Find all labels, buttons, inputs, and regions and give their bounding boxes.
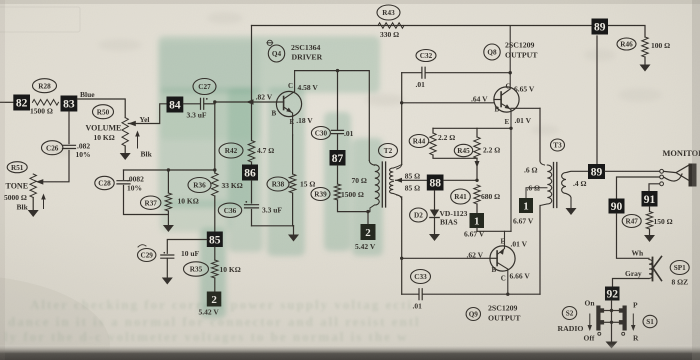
wire 89 down [596, 36, 598, 164]
ground C29 [166, 258, 168, 277]
wire Blue from 83 to volume pot [77, 99, 125, 118]
switch S1 [643, 315, 657, 327]
capacitor C27 [193, 79, 216, 95]
marker box 82 [13, 95, 30, 111]
test point box 1 D2 [470, 213, 485, 228]
potentiometer R51 TONE [7, 162, 27, 173]
resistor R28 [33, 79, 57, 93]
monitor jack [605, 170, 660, 172]
test point box 2 bottom [207, 292, 222, 307]
wire Yel wiper to 84 [128, 104, 166, 124]
resistor R36 [188, 178, 211, 193]
marker box 90 [609, 199, 625, 214]
capacitor C29 [167, 240, 207, 254]
resistor R43 [377, 5, 400, 20]
resistor R41 [451, 189, 471, 204]
ground R37 [163, 225, 174, 232]
transistor Q8 2SC1209 OUTPUT [484, 44, 500, 60]
resistor R35 [184, 262, 209, 276]
T2 secondary [390, 168, 394, 180]
ground switch [606, 342, 618, 349]
wiper arrow R50 [128, 121, 136, 126]
adjust arrow tone [43, 197, 45, 209]
wire left rail B [401, 197, 403, 294]
wire Q8 base [402, 102, 494, 104]
marker box 87 [330, 150, 346, 166]
capacitor C33 [411, 270, 431, 284]
switch throw arrows [589, 314, 591, 327]
resistor R39 [311, 188, 330, 201]
wire input to 82 [0, 101, 13, 103]
marker box 84 [167, 97, 184, 113]
resistor R46 [617, 38, 636, 50]
capacitor C36 [218, 203, 241, 217]
ground rail [293, 226, 295, 235]
wire bottom rail 86-R38 [252, 225, 294, 227]
marker box 89 top [592, 19, 609, 35]
wire Q4 collector to T2 [295, 71, 370, 161]
marker box 86 [242, 165, 258, 181]
test point box 1 T3 [519, 198, 533, 213]
transformer T2 [379, 144, 398, 158]
resistor R44 [409, 135, 429, 148]
wire 88 to R41 [444, 179, 478, 181]
resistor R37 [141, 196, 161, 209]
resistor R38 [267, 177, 289, 191]
wire 83 down to C26 [68, 112, 70, 144]
resistor R45 [454, 144, 472, 156]
wire C27 to Q4 base [204, 103, 215, 105]
marker box 85 [207, 232, 223, 248]
marker box 92 [605, 287, 620, 301]
transistor Q9 2SC1209 OUTPUT [466, 308, 480, 321]
ground T3 secondary [566, 208, 577, 215]
transformer T3 [551, 139, 565, 151]
ground tone pot [32, 198, 34, 211]
potentiometer R50 VOLUME [93, 105, 114, 119]
capacitor C28 [95, 176, 114, 189]
node C27 out [213, 100, 216, 103]
test point box 2 T2 [361, 224, 376, 240]
ground R47 [644, 235, 655, 242]
switch S2 RADIO [562, 307, 576, 320]
wire Q9 base [402, 257, 490, 259]
wire left rail A [401, 73, 403, 165]
marker box 89 second [588, 164, 605, 179]
ground R46 [640, 65, 651, 72]
ground D2 [429, 234, 440, 241]
wire R45 down arrow [476, 158, 478, 180]
marker box 88 [427, 175, 444, 191]
capacitor C30 [311, 127, 330, 140]
wire switch cross [604, 310, 619, 312]
wire main top rail [252, 25, 592, 27]
wire 90 to speaker Wh [617, 214, 650, 259]
wire C26 to tone wiper [42, 151, 69, 182]
node R37 top [167, 168, 170, 171]
wire to test point 2 [367, 212, 369, 224]
wire rail to R46 [609, 26, 646, 38]
wire speaker Gray to 92 [613, 279, 650, 287]
resistor R47 [622, 215, 641, 228]
marker box 83 [61, 96, 78, 112]
T3 secondary [562, 173, 566, 194]
adjust arrow [137, 134, 139, 148]
wire 92 to switch [611, 301, 613, 342]
open contacts [598, 332, 601, 335]
capacitor C32 [416, 50, 436, 62]
capacitor C26 [42, 141, 63, 155]
T3 center tap [526, 188, 547, 198]
wire emitter rail [477, 230, 511, 232]
speaker SP1 [649, 260, 653, 279]
wire top rail left network [124, 169, 215, 171]
node C30 top [336, 69, 339, 72]
resistor R42 [219, 143, 243, 158]
T2 center tap arrow [396, 178, 403, 183]
node rail R36 [213, 168, 216, 171]
node T2 bottom [366, 210, 369, 213]
transistor Q4 2SC1364 DRIVER [268, 45, 284, 62]
marker box 91 [642, 191, 658, 207]
switch bars [596, 306, 600, 331]
diode D2 VD-1123 BIAS [410, 208, 428, 222]
ground volume pot [124, 146, 126, 153]
